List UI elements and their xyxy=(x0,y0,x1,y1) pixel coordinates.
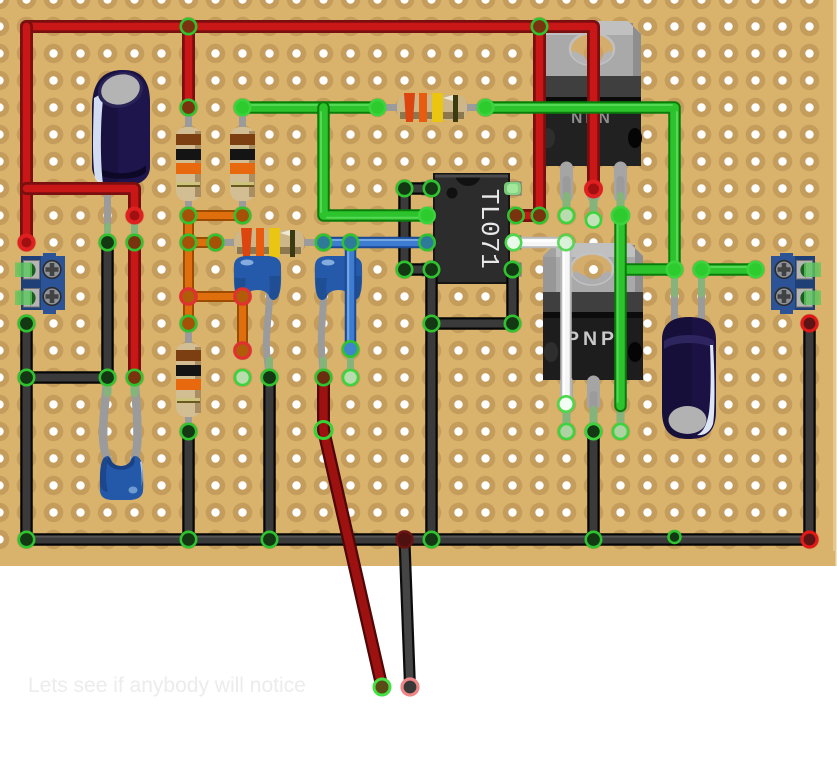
screw terminal J2 right xyxy=(771,253,821,314)
wire red left rail xyxy=(20,27,33,243)
svg-text:PNP: PNP xyxy=(566,328,618,350)
wire black Q2 emitter to bus xyxy=(587,432,600,540)
capacitor C5 film blue legs xyxy=(103,378,137,461)
capacitor C2 electrolytic body xyxy=(662,317,716,439)
red end caps xyxy=(18,180,818,548)
wire black U1 pin5 down xyxy=(432,270,513,324)
transistor Q2 PNP TO-220 xyxy=(543,243,643,430)
component leg end caps xyxy=(235,208,628,439)
wire black C1 minus xyxy=(27,243,108,378)
wire red to C1 plus xyxy=(27,189,135,216)
wire blue R4 to U1 pin3 xyxy=(324,240,428,243)
node dots black net xyxy=(19,181,681,547)
white wire caps xyxy=(506,235,574,412)
resistor R2 10k vertical xyxy=(230,108,255,216)
resistor R3 horizontal xyxy=(378,93,486,122)
perfboard base xyxy=(0,0,837,566)
op-amp U1 TL071 xyxy=(422,174,521,283)
screw terminal J1 left xyxy=(15,253,65,314)
resistor R1 10k vertical xyxy=(176,108,201,216)
wire green Q1 emitter to Q2 collector xyxy=(618,216,621,407)
flying lead tips xyxy=(374,679,418,695)
wire green C2 to J2 xyxy=(702,267,756,270)
wire orange to R4 xyxy=(189,237,216,248)
wire black U1 pin1-pin4 strap xyxy=(405,189,432,270)
resistor R5 10k vertical xyxy=(176,324,201,432)
wire red rail to U1 pin7 xyxy=(516,27,540,216)
capacitor C3 film blue legs xyxy=(266,294,269,378)
wire green to U1 pin2 xyxy=(321,108,427,218)
orange red-ring dots xyxy=(181,289,250,358)
resistor R4 horizontal xyxy=(216,228,324,257)
wire orange R1 to R2 top xyxy=(189,210,243,221)
capacitor C3 film blue body xyxy=(234,256,281,300)
wire orange to C3 xyxy=(189,297,243,351)
node dots orange net xyxy=(181,208,250,331)
wire green R2 to R3 xyxy=(243,105,378,108)
U1 pin8 highlight xyxy=(504,182,521,195)
capacitor C5 film blue body xyxy=(100,456,143,500)
blue wire caps xyxy=(316,235,435,357)
wire black gnd left xyxy=(20,324,33,540)
wire white U1 pin6 to Q2 xyxy=(514,241,567,405)
node dots red net xyxy=(127,19,547,385)
capacitor C1 electrolytic leads xyxy=(108,182,135,243)
capacitor C1 electrolytic body xyxy=(92,67,150,186)
hidden message text xyxy=(28,674,306,698)
wire black flying lead xyxy=(405,541,411,687)
transistor Q1 NPN TO-220 xyxy=(541,21,642,219)
green wire caps xyxy=(235,100,763,277)
wire black R5 to bus xyxy=(182,432,195,540)
svg-text:TL071: TL071 xyxy=(474,189,504,270)
wire red V+ top rail xyxy=(27,27,594,190)
capacitor C2 electrolytic leads xyxy=(675,270,702,331)
capacitor C4 film blue body xyxy=(315,256,362,300)
wire black C3 to bus xyxy=(263,378,276,540)
wire black gnd bus bottom xyxy=(27,537,810,540)
capacitor C4 film blue legs xyxy=(321,294,350,378)
wire blue to C4 xyxy=(348,243,350,350)
wire black right riser xyxy=(803,324,816,540)
wire red rail to R1 xyxy=(182,27,195,108)
wire green R3 around to Q1 Q2 xyxy=(486,105,678,270)
wire black U1 pin4 to bus xyxy=(425,270,438,540)
wire red C1 to C5 xyxy=(128,243,141,378)
wire orange vertical chain xyxy=(183,216,194,324)
wire dark red flying lead xyxy=(324,378,383,688)
